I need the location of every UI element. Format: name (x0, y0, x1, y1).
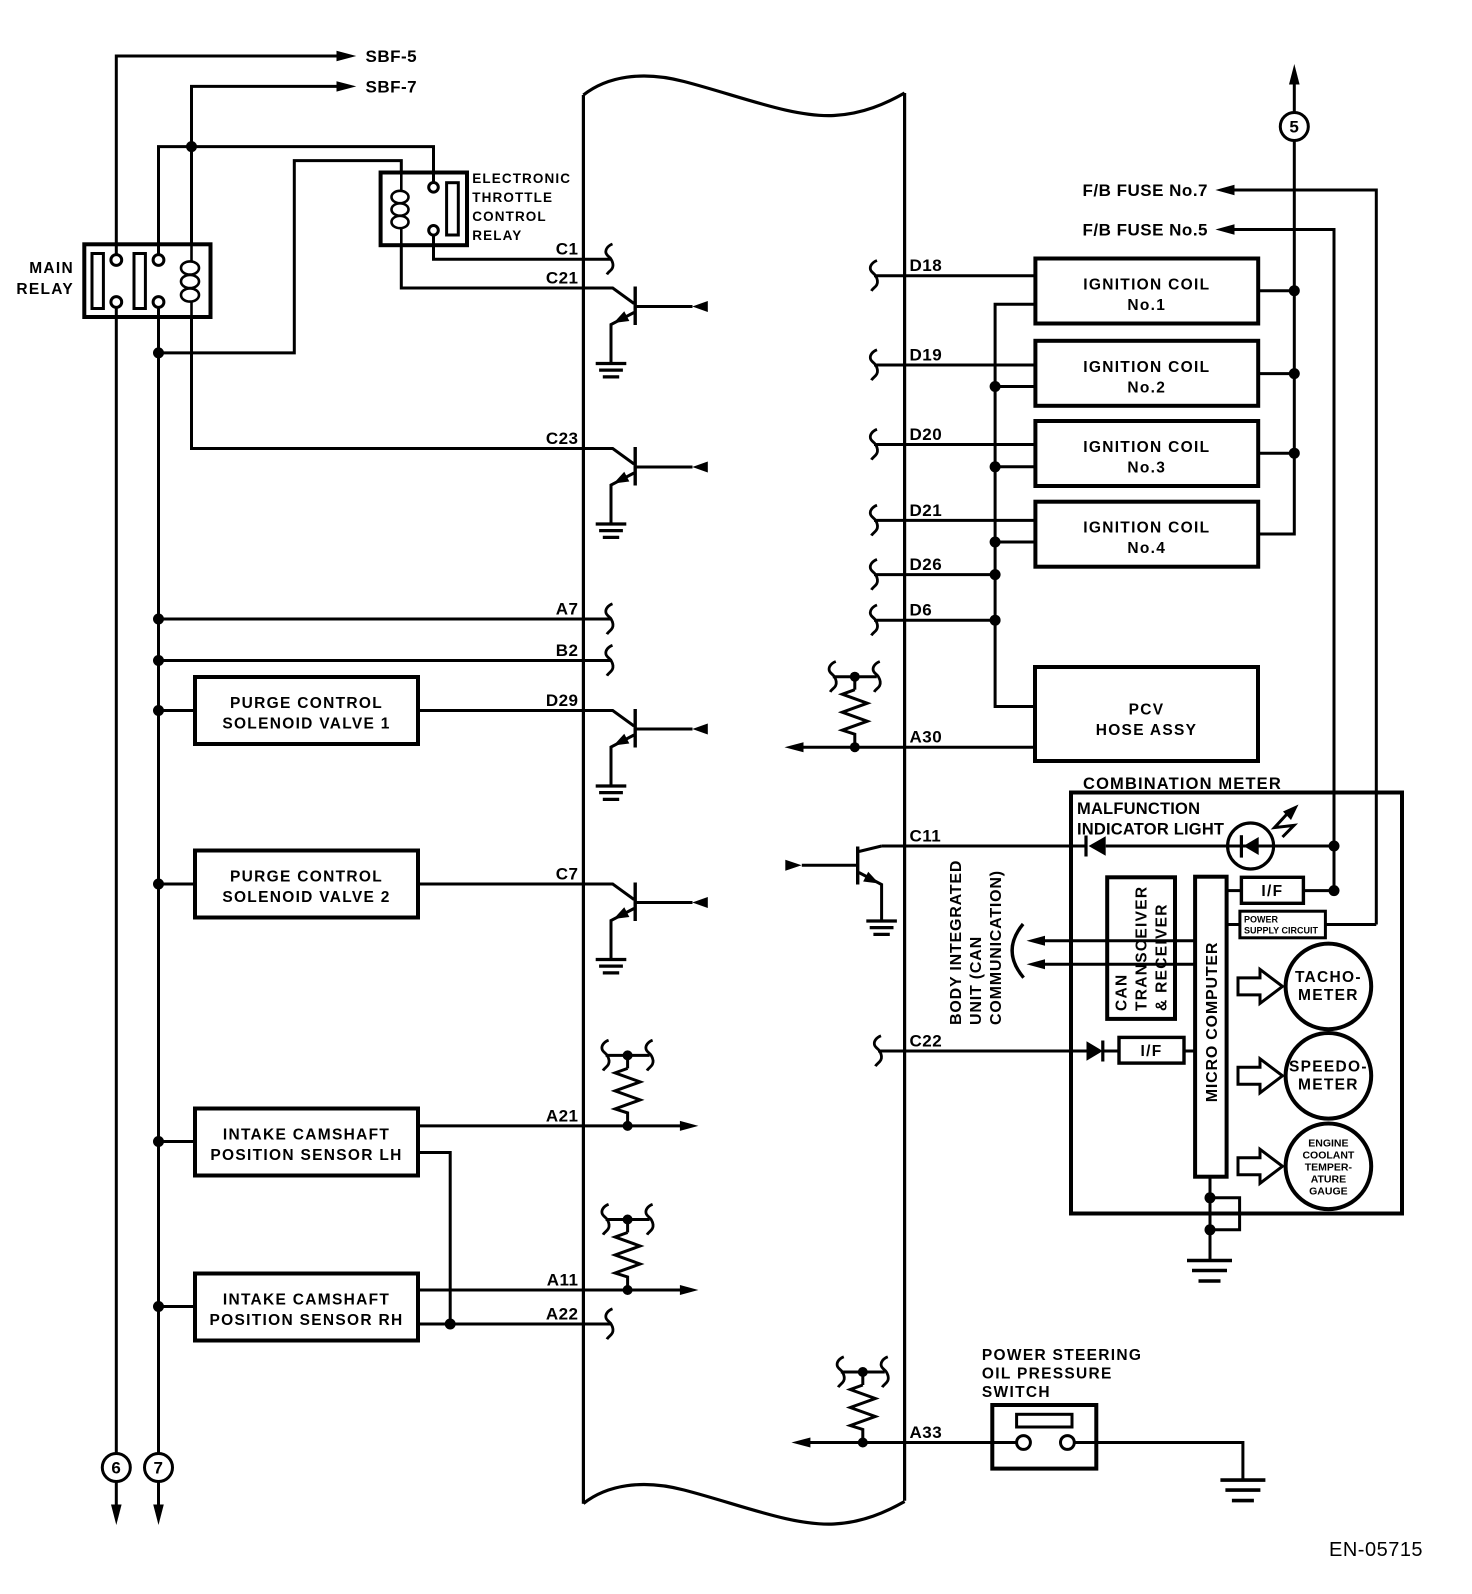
box IGNITION COIL No.3 (1035, 421, 1258, 486)
svg-text:No.4: No.4 (1127, 540, 1166, 557)
svg-text:7: 7 (154, 1459, 164, 1478)
svg-text:SOLENOID VALVE 1: SOLENOID VALVE 1 (222, 716, 390, 733)
wire ignition coil supply rail (x=1294.3) (1258, 141, 1294, 535)
box combination meter (1071, 793, 1402, 1214)
pin C1 break squiggle (606, 244, 613, 274)
node junction MIL / fuse5 rail (1329, 841, 1340, 852)
svg-text:TRANSCEIVER: TRANSCEIVER (1134, 886, 1151, 1011)
svg-text:UNIT (CAN: UNIT (CAN (968, 936, 985, 1025)
svg-text:SOLENOID VALVE 2: SOLENOID VALVE 2 (222, 889, 390, 906)
pin C22 wire (878, 1050, 1087, 1053)
wire I/F upper to fuse5 rail (1303, 889, 1334, 892)
transistor Q1 (C21 driver) (583, 287, 707, 377)
svg-text:COOLANT: COOLANT (1302, 1149, 1354, 1161)
svg-text:COMMUNICATION): COMMUNICATION) (988, 870, 1005, 1025)
svg-text:A22: A22 (546, 1305, 579, 1324)
svg-text:OIL PRESSURE: OIL PRESSURE (982, 1366, 1113, 1383)
arrow below connector 7 (157, 1482, 160, 1508)
connector 5 arrow up (1289, 64, 1300, 85)
arrow to SBF-7 (337, 81, 357, 91)
svg-text:D26: D26 (910, 555, 943, 574)
wire main-relay contact2 to ETC relay contact (top rail y=146.6) (159, 147, 434, 256)
svg-text:ATURE: ATURE (1311, 1173, 1346, 1185)
box PCV HOSE ASSY (1035, 667, 1258, 761)
diode D1 (MIL line) (1084, 836, 1087, 857)
svg-text:SPEEDO-: SPEEDO- (1289, 1058, 1368, 1075)
relay MAIN RELAY box (84, 244, 210, 317)
svg-text:IGNITION COIL: IGNITION COIL (1083, 359, 1210, 376)
ETC relay contact bar (447, 183, 459, 235)
wire LH lower to A22 junction (418, 1153, 450, 1325)
svg-text:A7: A7 (556, 600, 579, 619)
svg-text:MICRO COMPUTER: MICRO COMPUTER (1204, 942, 1221, 1103)
wire purge valve 2 to trunk (159, 883, 196, 886)
wire main relay coil to C23 (x=191.5 down, then right) (192, 317, 613, 449)
svg-text:5: 5 (1289, 118, 1299, 137)
relay ELECTRONIC THROTTLE CONTROL RELAY box (381, 173, 467, 246)
svg-text:6: 6 (111, 1459, 121, 1478)
node junction LH (153, 1136, 164, 1147)
arrow F/B FUSE No.7 (1215, 185, 1234, 195)
coil No.1 output wire (1258, 289, 1294, 292)
svg-text:CAN: CAN (1114, 974, 1131, 1011)
svg-text:INTAKE CAMSHAFT: INTAKE CAMSHAFT (223, 1292, 390, 1309)
svg-text:GAUGE: GAUGE (1309, 1185, 1348, 1197)
svg-text:D21: D21 (910, 501, 943, 520)
svg-text:B2: B2 (556, 641, 579, 660)
svg-text:D18: D18 (910, 256, 943, 275)
wire purge 2 to pin C7 (418, 883, 583, 886)
wire SBF-5 feed (116, 56, 337, 255)
svg-text:PURGE CONTROL: PURGE CONTROL (230, 869, 383, 886)
trunk wire L2 (x=158.5) to connector 7 (157, 307, 160, 1454)
gauge TACHO-METER (1238, 969, 1283, 1003)
wire LH to pin A21 (418, 1124, 681, 1127)
node junction A22 (445, 1319, 456, 1330)
trunk wire L1 (x=116.3) to connector 6 (115, 307, 118, 1454)
svg-text:TEMPER-: TEMPER- (1305, 1161, 1353, 1173)
svg-text:EN-05715: EN-05715 (1329, 1539, 1423, 1561)
node junction RH (153, 1301, 164, 1312)
switch POWER STEERING OIL PRESSURE box (992, 1405, 1096, 1469)
box IGNITION COIL No.2 (1035, 341, 1258, 406)
wire I/F lower to micro (1184, 1050, 1195, 1053)
svg-text:No.3: No.3 (1127, 460, 1166, 477)
box CAN TRANSCEIVER & RECEIVER (1107, 877, 1175, 1019)
wire micro to I/F upper (1227, 889, 1242, 892)
wire SBF-7 feed (192, 86, 338, 146)
arrow A21 internal (680, 1121, 699, 1131)
resistor pull-up at A30 (829, 662, 880, 753)
svg-text:C21: C21 (546, 269, 579, 288)
svg-text:RELAY: RELAY (472, 228, 522, 243)
svg-text:POSITION SENSOR RH: POSITION SENSOR RH (210, 1312, 404, 1329)
svg-text:C1: C1 (556, 240, 579, 259)
wire ETC contact to pin C1 (434, 235, 613, 259)
pin A7 wire (159, 618, 613, 621)
CAN bus wires (1044, 939, 1195, 942)
svg-text:I/F: I/F (1141, 1043, 1163, 1060)
svg-text:CONTROL: CONTROL (472, 209, 546, 224)
main relay contact bar 2 (134, 254, 145, 309)
pin D6 wire (874, 619, 995, 622)
LED MIL lamp (1228, 823, 1274, 869)
svg-text:SBF-7: SBF-7 (366, 77, 418, 96)
svg-text:A33: A33 (910, 1423, 943, 1442)
coil No.3 output wire (1258, 452, 1294, 455)
svg-text:INDICATOR LIGHT: INDICATOR LIGHT (1077, 821, 1224, 839)
CAN bus arrows (1027, 936, 1046, 946)
box POWER SUPPLY CIRCUIT (1240, 911, 1326, 938)
box INTAKE CAMSHAFT POSITION SENSOR RH (195, 1274, 418, 1341)
svg-text:D6: D6 (910, 601, 933, 620)
svg-text:HOSE ASSY: HOSE ASSY (1096, 722, 1198, 739)
svg-text:INTAKE CAMSHAFT: INTAKE CAMSHAFT (223, 1127, 390, 1144)
resistor pull-up at A33 (837, 1357, 888, 1448)
coil No.3 lower connection (995, 465, 1035, 468)
svg-text:METER: METER (1298, 1076, 1359, 1093)
wire F/B FUSE No.5 to MIL rail (1233, 230, 1334, 891)
gauge ENGINE COOLANT TEMPERATURE GAUGE (1238, 1149, 1283, 1183)
pin A30 wire with arrow (803, 746, 1035, 749)
svg-text:F/B FUSE No.7: F/B FUSE No.7 (1082, 181, 1208, 200)
svg-text:D19: D19 (910, 346, 943, 365)
wire main relay coil feed (vertical x=191.5 into coil) (190, 147, 193, 245)
box I/F (lower) (1119, 1037, 1184, 1063)
resistor pull-up at A11 (602, 1204, 653, 1295)
svg-text:SUPPLY CIRCUIT: SUPPLY CIRCUIT (1244, 926, 1319, 936)
wire ETC coil to pin C21 (401, 245, 583, 288)
pin B2 wire (159, 659, 613, 662)
LED lightning arrow (1275, 814, 1295, 837)
ECM band top wavy edge (583, 76, 904, 116)
diode D2 (C22 line) (1087, 1041, 1103, 1060)
box PURGE CONTROL SOLENOID VALVE 1 (195, 677, 418, 744)
svg-text:POWER: POWER (1244, 915, 1279, 925)
pin C11 wire (882, 845, 1086, 848)
svg-text:ELECTRONIC: ELECTRONIC (472, 171, 571, 186)
svg-text:MALFUNCTION: MALFUNCTION (1077, 800, 1200, 818)
wire diode to I/F lower (1103, 1050, 1119, 1053)
ECM band bottom wavy edge (583, 1484, 904, 1524)
svg-text:MAIN: MAIN (29, 260, 74, 277)
svg-text:IGNITION COIL: IGNITION COIL (1083, 520, 1210, 537)
ETC relay coil (392, 173, 409, 246)
arrow F/B FUSE No.5 (1215, 224, 1234, 234)
ground power steering switch (1220, 1480, 1265, 1501)
ECM connector band: left wall (582, 95, 585, 1504)
pin A33 wire with arrow (810, 1441, 1018, 1444)
connector 5 circle (1280, 113, 1308, 141)
svg-text:C7: C7 (556, 865, 579, 884)
svg-text:D20: D20 (910, 425, 943, 444)
node junction purge 2 (153, 879, 164, 890)
svg-text:RELAY: RELAY (16, 281, 74, 298)
main relay coil (181, 244, 199, 317)
arrow below connector 6 (115, 1482, 118, 1508)
connector 7 circle (145, 1454, 173, 1482)
svg-text:D29: D29 (546, 691, 579, 710)
pin D21 wire (874, 519, 1035, 522)
ETC relay pin circles (429, 183, 439, 193)
arrow to SBF-5 (337, 51, 357, 61)
node junction A7 (153, 614, 164, 625)
box IGNITION COIL No.1 (1035, 259, 1258, 324)
box I/F (upper) (1241, 877, 1303, 903)
pin D26 wire (874, 573, 995, 576)
CAN bus arc (1012, 924, 1023, 978)
svg-text:SWITCH: SWITCH (982, 1384, 1051, 1401)
svg-text:& RECEIVER: & RECEIVER (1154, 903, 1171, 1011)
ECM connector band: right wall (903, 93, 906, 1501)
svg-text:F/B FUSE No.5: F/B FUSE No.5 (1082, 221, 1208, 240)
pin D18 wire (874, 274, 1035, 277)
transistor Q2 (C23 driver) (583, 447, 707, 537)
svg-text:POWER STEERING: POWER STEERING (982, 1347, 1142, 1364)
svg-text:C11: C11 (910, 827, 942, 846)
transistor Q3 (D29 driver) (583, 709, 707, 799)
box IGNITION COIL No.4 (1035, 502, 1258, 567)
node junction on trunk L2 at y=352.9 (153, 347, 164, 358)
box MICRO COMPUTER (1195, 877, 1227, 1177)
wire F/B FUSE No.7 to power supply circuit (1233, 190, 1376, 925)
svg-text:No.1: No.1 (1127, 297, 1166, 314)
node junction SBF-7/relay coil (186, 141, 197, 152)
svg-text:No.2: No.2 (1127, 379, 1166, 396)
svg-text:ENGINE: ENGINE (1308, 1137, 1348, 1149)
svg-text:BODY INTEGRATED: BODY INTEGRATED (948, 860, 965, 1025)
wire diode to LED (1106, 845, 1334, 848)
box INTAKE CAMSHAFT POSITION SENSOR LH (195, 1109, 418, 1176)
node junction B2 (153, 655, 164, 666)
pin D19 wire (874, 364, 1035, 367)
svg-text:A30: A30 (910, 728, 943, 747)
node junction purge 1 (153, 705, 164, 716)
arrow A11 internal (680, 1285, 699, 1295)
main relay pin circles (111, 255, 122, 266)
svg-text:I/F: I/F (1261, 883, 1283, 900)
wire intake cam RH to trunk (159, 1305, 196, 1308)
svg-text:C23: C23 (546, 429, 579, 448)
svg-text:C22: C22 (910, 1032, 943, 1051)
svg-text:COMBINATION METER: COMBINATION METER (1083, 775, 1282, 793)
svg-text:PCV: PCV (1129, 702, 1165, 719)
coil No.2 lower connection (995, 385, 1035, 388)
svg-text:IGNITION COIL: IGNITION COIL (1083, 439, 1210, 456)
wire purge valve 1 to trunk (159, 709, 196, 712)
pin A7 break squiggle (606, 604, 613, 634)
svg-text:A21: A21 (546, 1106, 579, 1125)
svg-text:SBF-5: SBF-5 (366, 47, 418, 66)
wire purge 1 to pin D29 (418, 709, 583, 712)
wire coil common rail (x=995.1) (995, 304, 1035, 706)
wire intake cam LH to trunk (159, 1140, 196, 1143)
svg-text:TACHO-: TACHO- (1295, 969, 1362, 986)
main relay contact bar 1 (92, 254, 103, 309)
ground meter (1187, 1261, 1232, 1282)
wire RH to pin A22 (418, 1323, 612, 1326)
pin A22 break squiggle (606, 1309, 613, 1339)
gauge SPEEDO-METER (1238, 1059, 1283, 1093)
coil No.2 output wire (1258, 372, 1294, 375)
connector 6 circle (102, 1454, 130, 1482)
resistor pull-up at A21 (602, 1040, 653, 1131)
svg-text:METER: METER (1298, 987, 1359, 1004)
wire micro to PSC (1227, 923, 1240, 926)
svg-text:THROTTLE: THROTTLE (472, 190, 553, 205)
transistor Q5 (C11, mirrored) (785, 846, 897, 934)
coil No.4 lower connection (995, 541, 1035, 544)
meter ground bypass rectangle (1210, 1198, 1240, 1230)
svg-text:PURGE CONTROL: PURGE CONTROL (230, 695, 383, 712)
transistor Q4 (C7 driver) (583, 883, 707, 973)
wire ETC coil feed branch (y=352.9 / riser x=294.3 / y=160.6) (159, 161, 402, 353)
svg-text:POSITION SENSOR LH: POSITION SENSOR LH (210, 1147, 402, 1164)
wire micro computer to meter ground (1209, 1177, 1212, 1261)
wire switch to ground (1074, 1443, 1243, 1481)
svg-text:IGNITION COIL: IGNITION COIL (1083, 277, 1210, 294)
node junction I/F / fuse5 rail (1329, 885, 1340, 896)
box PURGE CONTROL SOLENOID VALVE 2 (195, 851, 418, 918)
wire PSC to fuse7 rail (1325, 923, 1376, 926)
wire RH to pin A11 (418, 1289, 681, 1292)
pin D20 wire (874, 443, 1035, 446)
pin B2 break squiggle (606, 645, 613, 675)
svg-text:A11: A11 (547, 1271, 579, 1290)
